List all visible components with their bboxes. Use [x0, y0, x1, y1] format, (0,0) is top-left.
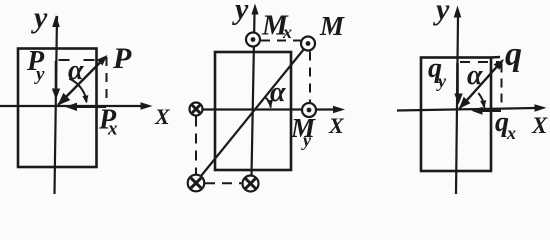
y axis arrowhead (panel 1) — [52, 15, 60, 27]
alpha arc arrowhead (panel 1) — [82, 95, 88, 103]
diagonal line of action (panel 2) — [201, 50, 304, 177]
component qx arrow (left along x axis) — [477, 110, 501, 112]
svg-text:y: y — [31, 1, 48, 34]
dashed link left cross circle down — [195, 117, 197, 175]
vector P arrowhead at origin — [58, 93, 71, 106]
angle alpha arc (panel 1) — [69, 79, 87, 102]
svg-text:y: y — [436, 71, 447, 91]
svg-text:M: M — [319, 11, 345, 41]
vector P shaft — [58, 58, 105, 106]
svg-text:y: y — [301, 130, 312, 150]
svg-text:y: y — [433, 0, 450, 26]
svg-text:α: α — [467, 60, 483, 91]
moment Mx symbol (dot circle on y axis) — [246, 33, 260, 47]
x axis arrowhead (panel 2) — [333, 106, 345, 114]
moment My symbol (dot circle on x axis) — [302, 103, 316, 117]
moment M symbol (dot circle top right) — [301, 37, 315, 51]
y axis arrowhead (panel 3) — [454, 6, 462, 18]
cross circle bottom left (panel 2) — [188, 175, 205, 192]
vector q shaft — [460, 62, 502, 109]
dashed projection line vertical from P tip — [106, 57, 108, 104]
x axis arrowhead (panel 3) — [534, 104, 546, 112]
angle alpha arc (panel 3) — [478, 93, 484, 108]
svg-text:X: X — [154, 104, 171, 129]
svg-text:x: x — [282, 22, 292, 42]
vector P tip arrowhead — [97, 55, 108, 66]
alpha arc arrowhead (panel 3) — [480, 100, 486, 108]
svg-text:P: P — [112, 42, 132, 75]
dashed projection line horizontal from q tip — [460, 61, 499, 63]
svg-text:y: y — [232, 0, 249, 26]
rectangle top edge overshoot (panel 3) — [491, 56, 500, 59]
dashed projection line horizontal from P tip — [59, 59, 97, 61]
y axis arrowhead (panel 2) — [251, 4, 258, 15]
qy arrowhead — [454, 94, 462, 105]
component Py arrow (down along y axis) — [55, 61, 58, 92]
y axis (panel 3) — [456, 17, 458, 194]
cross circle bottom middle (panel 2) — [243, 176, 259, 192]
dashed projection line vertical from q tip — [501, 64, 503, 109]
x axis arrowhead (panel 1) — [141, 102, 153, 110]
Py arrowhead — [52, 89, 60, 100]
y axis (panel 2) — [252, 14, 255, 176]
svg-text:x: x — [506, 123, 516, 143]
component qy arrow (down along y axis) — [456, 63, 459, 94]
x axis (panel 3) — [397, 108, 542, 111]
Px arrowhead — [65, 103, 77, 111]
qx arrowhead — [472, 107, 483, 115]
dashed link bottom circles — [205, 182, 242, 184]
body rectangle (panel 2) — [215, 52, 291, 170]
angle alpha arc (panel 2) — [265, 97, 271, 108]
y axis (panel 1) — [55, 16, 58, 194]
body rectangle (panel 3) — [421, 58, 491, 172]
svg-text:α: α — [270, 77, 286, 108]
body rectangle (panel 1) — [18, 49, 97, 168]
dashed link Mx circle to M circle — [261, 40, 301, 42]
panel 3: load q and its components — [397, 0, 548, 194]
vector q arrowhead at origin — [459, 97, 471, 109]
svg-text:X: X — [531, 113, 548, 138]
svg-text:X: X — [328, 113, 345, 138]
cross circle on x axis (panel 2) — [190, 103, 203, 116]
svg-text:y: y — [34, 64, 45, 85]
x axis (panel 1) — [0, 105, 148, 107]
alpha arc arrowhead (panel 2) — [267, 100, 273, 108]
dashed link M circle to My circle — [309, 52, 311, 103]
vector q tip arrowhead — [494, 59, 504, 70]
svg-text:x: x — [107, 119, 118, 140]
x axis (panel 2) — [190, 108, 341, 110]
svg-text:q: q — [505, 36, 522, 73]
component Px arrow (left along x axis) — [70, 106, 106, 108]
panel 2: moment vectors M — [188, 0, 345, 192]
svg-text:α: α — [68, 55, 84, 86]
panel 1: force P and its components — [0, 1, 171, 194]
